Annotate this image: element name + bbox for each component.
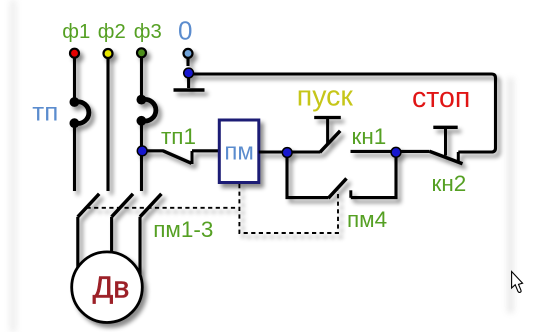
ground bar <box>174 88 205 91</box>
top rail wire from neutral node to right side <box>189 74 496 152</box>
svg-text:ф2: ф2 <box>98 21 126 43</box>
wire phase L2 <box>106 57 109 191</box>
contact TP1 stub from node <box>143 149 164 152</box>
motor feed wire 1 <box>76 217 79 268</box>
contact KN2 blade (NC stop) <box>429 151 462 164</box>
svg-text:пуск: пуск <box>297 81 354 113</box>
node dot left of KN1 <box>282 148 292 158</box>
svg-text:пм4: пм4 <box>347 207 387 232</box>
svg-text:ф1: ф1 <box>62 21 90 43</box>
node dot on L3 at TP1 <box>137 146 147 156</box>
motor feed wire 2 <box>110 217 113 253</box>
mouse cursor <box>512 272 523 293</box>
button STOP stem <box>444 127 447 155</box>
control rail from PM box to KN1 pivot <box>259 150 321 153</box>
svg-text:пм1-3: пм1-3 <box>153 217 213 242</box>
svg-text:тп: тп <box>32 96 58 126</box>
contact PM4 fixed tick <box>349 190 352 198</box>
svg-text:кн1: кн1 <box>352 124 387 149</box>
bypass loop PM4 bottom right and riser <box>351 153 396 198</box>
coil box PM <box>219 120 258 183</box>
terminal dot F2 <box>104 49 113 58</box>
button STOP bar <box>433 126 457 129</box>
svg-text:пм: пм <box>224 139 254 166</box>
thermal element TP heater on L3 <box>137 95 156 126</box>
svg-text:кн2: кн2 <box>432 171 467 196</box>
node dot neutral rail <box>184 68 194 78</box>
svg-text:ф3: ф3 <box>134 21 162 43</box>
wire phase L3 lower <box>140 124 143 192</box>
control rail from TP1 to PM box <box>192 149 219 152</box>
contact PM4 blade <box>328 178 346 198</box>
wire phase L1 lower <box>73 126 76 191</box>
button PUSK bar <box>314 116 341 119</box>
contact TP1 blade <box>163 151 192 164</box>
svg-text:0: 0 <box>178 15 192 45</box>
main contact PM3 blade <box>140 194 161 217</box>
control rail from KN1 to KN2 <box>351 150 430 153</box>
svg-text:стоп: стоп <box>412 82 470 114</box>
motor feed wire 3 <box>138 217 141 276</box>
ground stem <box>187 74 190 88</box>
motor circle DV <box>72 252 143 323</box>
contact TP1 fixed tick <box>191 151 194 164</box>
wire phase L1 upper <box>73 57 76 99</box>
terminal dot F1 <box>70 49 79 58</box>
wire neutral stub <box>186 57 189 66</box>
wire phase L3 upper <box>140 57 143 97</box>
svg-text:тп1: тп1 <box>161 124 196 149</box>
main contact PM2 blade <box>112 194 133 217</box>
contact KN1 blade (NO start) <box>320 131 340 153</box>
button PUSK stem <box>326 118 329 144</box>
main contact PM1 blade <box>78 194 99 217</box>
terminal dot neutral 0 <box>184 49 193 58</box>
linkage dashes from PM coil to PM4 <box>239 184 338 233</box>
node dot right of KN1 <box>391 147 401 157</box>
bypass loop PM4 left leg and bottom <box>287 153 328 198</box>
contact KN2 fixed tick <box>457 152 460 164</box>
thermal element TP heater on L1 <box>70 97 89 128</box>
svg-text:Дв: Дв <box>93 270 130 304</box>
terminal dot F3 <box>137 48 146 57</box>
linkage dashes for PM1-3 <box>87 207 237 209</box>
